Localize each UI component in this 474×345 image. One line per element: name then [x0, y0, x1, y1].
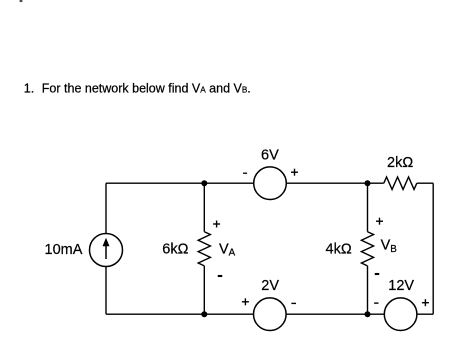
resistor R 2kohm horizontal zigzag	[384, 177, 417, 190]
resistor R 4kohm vertical zigzag	[361, 232, 373, 266]
polarity minus below VA	[218, 275, 223, 277]
polarity plus right of 6V source	[291, 169, 298, 176]
polarity plus right of 12V source	[422, 299, 429, 306]
junction dot node bottom-right	[365, 311, 371, 317]
svg-text:For the network below find VA: For the network below find VA and VB.	[42, 82, 251, 96]
wire from 2k resistor to top-right corner	[417, 182, 433, 184]
problem statement text	[24, 82, 251, 96]
svg-text:10mA: 10mA	[45, 242, 83, 258]
voltage source V2 2V circle	[253, 298, 286, 331]
wire node A branch lower	[203, 266, 205, 314]
svg-text:6V: 6V	[261, 147, 279, 163]
current source I1 10mA circle	[90, 234, 123, 267]
voltage source V3 12V circle	[384, 298, 417, 331]
svg-text:2V: 2V	[261, 278, 279, 294]
svg-text:2kΩ: 2kΩ	[387, 155, 413, 171]
wire left vertical upper segment	[105, 183, 107, 234]
polarity minus left of 12V source	[374, 302, 378, 303]
resistor R 6kohm vertical zigzag	[198, 232, 210, 266]
current source arrow	[103, 238, 110, 259]
junction dot node top-left	[201, 180, 207, 186]
wire bottom-right horizontal segment	[417, 313, 433, 315]
wire node A branch upper	[203, 183, 205, 232]
wire node B branch upper	[367, 183, 369, 232]
polarity minus below VB	[375, 273, 380, 275]
svg-text:12V: 12V	[388, 278, 414, 294]
wire node B branch lower	[367, 266, 369, 314]
voltage source V1 6V circle	[254, 167, 287, 200]
wire bottom-middle horizontal segment	[286, 313, 384, 315]
polarity plus above VB	[376, 218, 383, 225]
svg-text:6kΩ: 6kΩ	[162, 241, 188, 257]
svg-text:1.: 1.	[24, 82, 34, 96]
polarity plus left of 2V source	[242, 298, 249, 305]
junction dot node bottom-left	[201, 311, 207, 317]
wire top-left horizontal segment	[106, 182, 254, 184]
scan artifact mark top-left	[20, 0, 23, 2]
wire right vertical side	[432, 183, 434, 314]
wire left vertical lower segment	[105, 266, 107, 314]
polarity plus above VA	[213, 221, 220, 228]
junction dot node top-right	[365, 180, 371, 186]
polarity minus right of 2V source	[291, 303, 296, 304]
svg-text:4kΩ: 4kΩ	[326, 241, 352, 257]
wire top-right horizontal segment to 2k resistor	[286, 182, 384, 184]
wire bottom-left horizontal segment	[106, 313, 254, 315]
polarity minus left of 6V source	[243, 173, 247, 174]
